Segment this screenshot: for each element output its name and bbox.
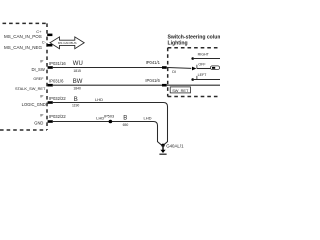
wire into switch box row1 (167, 67, 168, 69)
bus symbol MS CAN BUS (double arrow) (50, 37, 84, 49)
svg-text:1840: 1840 (73, 87, 81, 91)
svg-text:Lighting: Lighting (168, 41, 188, 47)
wire into switch box row2 (167, 84, 220, 86)
svg-text:IP: IP (40, 113, 44, 117)
svg-text:IP041/6: IP041/6 (145, 78, 160, 83)
svg-text:Switch-steering column: Switch-steering column (168, 35, 221, 41)
wire BW row2 (53, 84, 162, 86)
pin IP module side row4 (48, 120, 53, 123)
switch-steering column lighting box (dashed boundary) (168, 47, 220, 49)
module box IP (dashed boundary, left) (3, 22, 48, 24)
svg-text:WU: WU (73, 61, 83, 67)
wire B row3 to ground (53, 103, 168, 146)
pin IP041/6 (162, 84, 167, 87)
svg-text:1190: 1190 (72, 103, 79, 107)
svg-text:IP: IP (40, 94, 44, 98)
svg-text:LOGIC_GND: LOGIC_GND (22, 102, 46, 107)
contact tick LEFT (196, 76, 198, 80)
wire LEFT (193, 79, 220, 81)
pin MS_CAN_IN_POS (47, 34, 52, 37)
svg-text:DI: DI (172, 70, 176, 74)
svg-text:1815: 1815 (73, 69, 81, 73)
pin MS_CAN_IN_NEG (47, 44, 52, 47)
inline component on OFF wire (210, 66, 219, 70)
svg-text:LEFT: LEFT (198, 73, 208, 77)
svg-text:B: B (123, 116, 127, 122)
svg-text:G40AL/1: G40AL/1 (166, 143, 184, 148)
wire B row4 to ground (53, 122, 162, 146)
ground stem wire (162, 145, 164, 150)
ground junction dot (161, 144, 164, 147)
contact RIGHT (dot) (191, 57, 194, 60)
svg-text:DI_SW: DI_SW (32, 67, 45, 72)
svg-text:B: B (74, 97, 78, 103)
wire RIGHT (193, 58, 220, 60)
pin IP041/1 (162, 66, 167, 69)
pin IP module side row3 (48, 101, 53, 104)
svg-text:IP032/22: IP032/22 (49, 114, 66, 119)
svg-text:MS CAN BUS: MS CAN BUS (58, 41, 77, 45)
switch arm wire (168, 67, 192, 70)
splice IP503 (junction dot) (109, 120, 113, 124)
svg-text:GREF: GREF (33, 77, 44, 81)
svg-text:LHD: LHD (95, 97, 103, 102)
svg-text:MS_CAN_IN_NEG: MS_CAN_IN_NEG (4, 45, 43, 50)
contact LEFT (dot) (191, 78, 194, 81)
svg-text:IP: IP (40, 59, 44, 63)
svg-text:GND: GND (34, 121, 43, 126)
svg-text:IP031/6: IP031/6 (49, 78, 64, 83)
svg-text:STALK_SW_RET: STALK_SW_RET (15, 86, 46, 91)
svg-text:OFF: OFF (198, 62, 206, 66)
pin IP module side row1 (48, 66, 53, 69)
svg-text:BW: BW (73, 79, 83, 85)
svg-text:LHD: LHD (144, 116, 152, 121)
switch arm arrowhead (192, 67, 196, 71)
svg-text:IP031/16: IP031/16 (49, 61, 66, 66)
svg-text:IP032/22: IP032/22 (49, 96, 66, 101)
svg-text:C-: C- (42, 40, 47, 45)
wire OFF (197, 68, 211, 70)
pin IP module side row2 (48, 84, 53, 87)
ground symbol bar (159, 153, 166, 155)
svg-text:IP503: IP503 (104, 113, 114, 118)
wire WU row1 (53, 67, 162, 69)
svg-text:IP041/1: IP041/1 (146, 60, 161, 65)
contact tick OFF (196, 65, 198, 69)
svg-text:RIGHT: RIGHT (198, 53, 210, 57)
ground symbol arrow (160, 150, 165, 153)
svg-text:SW_RET: SW_RET (172, 88, 189, 93)
svg-text:MS_CAN_IN_POS: MS_CAN_IN_POS (4, 34, 42, 39)
svg-text:650: 650 (123, 123, 129, 127)
SW_RET boxed label (170, 87, 190, 93)
